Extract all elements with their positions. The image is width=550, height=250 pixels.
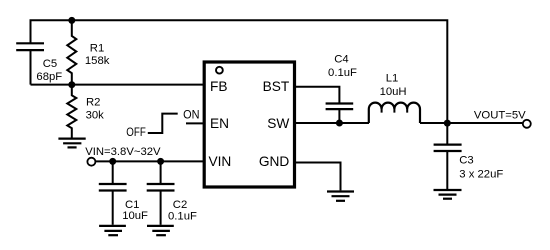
svg-text:BST: BST bbox=[263, 79, 290, 94]
svg-text:10uH: 10uH bbox=[380, 86, 407, 98]
svg-text:68pF: 68pF bbox=[36, 71, 62, 83]
ground under C2 bbox=[147, 226, 174, 235]
svg-text:SW: SW bbox=[267, 116, 289, 131]
wire L1 to VOUT terminal bbox=[420, 122, 522, 124]
wire GND pin to ground bbox=[296, 163, 341, 191]
op-amp U1 IC body bbox=[204, 62, 294, 187]
ground under C3 bbox=[434, 190, 462, 199]
svg-text:OFF: OFF bbox=[126, 125, 146, 139]
wire VIN rail bbox=[96, 160, 203, 162]
svg-text:C3: C3 bbox=[459, 154, 473, 166]
node VOUT junction dot bbox=[444, 120, 451, 127]
capacitor C2 bbox=[147, 161, 175, 224]
svg-text:C4: C4 bbox=[334, 54, 348, 66]
wire EN on/off step waveform bbox=[148, 114, 178, 133]
wire FB rail bbox=[31, 84, 204, 86]
svg-text:158k: 158k bbox=[85, 55, 110, 67]
svg-text:0.1uF: 0.1uF bbox=[168, 210, 197, 222]
svg-text:0.1uF: 0.1uF bbox=[328, 67, 357, 79]
resistor R2 bbox=[67, 85, 76, 138]
ground under R2 bbox=[58, 139, 85, 148]
node junction dot R1/R2/FB bbox=[68, 81, 75, 88]
wire top rail from C5/R1 top over to VOUT node bbox=[31, 20, 448, 123]
svg-text:R1: R1 bbox=[90, 43, 104, 55]
capacitor C1 bbox=[99, 161, 127, 224]
pin 1 marker circle bbox=[216, 67, 223, 74]
VOUT terminal circle bbox=[523, 120, 531, 128]
capacitor C4 bbox=[326, 104, 354, 124]
svg-text:VIN: VIN bbox=[209, 154, 232, 169]
wire EN stub bbox=[186, 122, 203, 124]
svg-text:VIN=3.8V~32V: VIN=3.8V~32V bbox=[85, 146, 161, 158]
wire SW rail bbox=[296, 122, 369, 124]
svg-text:VOUT=5V: VOUT=5V bbox=[474, 110, 526, 122]
svg-text:FB: FB bbox=[210, 79, 228, 94]
node junction dot top of R1 bbox=[68, 17, 75, 24]
wire BST to C4 bbox=[296, 87, 339, 104]
svg-text:C5: C5 bbox=[43, 58, 57, 70]
ground under GND pin bbox=[327, 192, 354, 201]
node C1 junction dot bbox=[109, 158, 116, 165]
svg-text:10uF: 10uF bbox=[122, 210, 148, 222]
capacitor C3 bbox=[434, 123, 462, 189]
inductor L1 bbox=[369, 103, 420, 123]
svg-text:L1: L1 bbox=[386, 73, 399, 85]
resistor R1 bbox=[67, 20, 76, 84]
svg-text:30k: 30k bbox=[86, 110, 105, 122]
VIN terminal circle bbox=[87, 158, 95, 166]
svg-text:3 x 22uF: 3 x 22uF bbox=[459, 168, 503, 180]
svg-text:ON: ON bbox=[183, 107, 199, 121]
svg-text:GND: GND bbox=[259, 154, 290, 169]
node C2 junction dot bbox=[157, 158, 164, 165]
node SW/C4 junction dot bbox=[336, 120, 343, 127]
ground under C1 bbox=[99, 226, 126, 235]
svg-text:C2: C2 bbox=[173, 199, 187, 211]
capacitor C5 bbox=[16, 43, 44, 84]
svg-text:EN: EN bbox=[210, 116, 229, 131]
svg-text:R2: R2 bbox=[86, 96, 100, 108]
